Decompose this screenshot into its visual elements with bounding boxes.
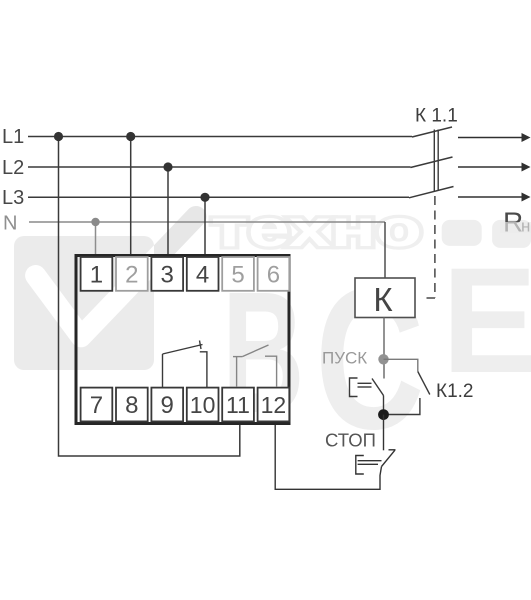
terminal 3 <box>151 257 183 291</box>
svg-text:6: 6 <box>267 261 280 288</box>
node PUSK <box>378 354 388 364</box>
push button PUSK <box>350 378 384 415</box>
svg-text:СТОП: СТОП <box>325 430 376 451</box>
contact K1.1 blade phase 3 <box>409 187 454 198</box>
svg-text:К 1.1: К 1.1 <box>415 106 458 127</box>
dashed link from K1.1 to coil <box>434 196 436 298</box>
svg-text:Е: Е <box>442 238 531 405</box>
svg-text:N: N <box>3 213 17 235</box>
coil K box <box>355 278 415 318</box>
terminal 9 <box>151 388 183 422</box>
terminal 11 <box>222 388 254 422</box>
wire L3 to terminal 4 <box>204 197 206 255</box>
device outer box <box>76 256 289 424</box>
wire L3 <box>28 196 409 198</box>
terminal 8 <box>116 388 148 422</box>
svg-text:7: 7 <box>90 392 103 419</box>
wire L2 to terminal 3 <box>167 167 169 255</box>
watermark logo square with checkmark <box>14 217 196 371</box>
node L1 tap 1 <box>54 132 63 141</box>
contact K1.1 blade phase 2 <box>411 157 453 168</box>
wire coil to PUSK node <box>383 318 385 379</box>
push button STOP <box>275 415 395 490</box>
svg-text:2: 2 <box>125 261 138 288</box>
wire L1 to terminal 2 <box>130 137 132 256</box>
svg-text:L1: L1 <box>2 126 24 148</box>
watermark big VSE letters <box>222 238 531 471</box>
terminal 5 <box>222 257 254 291</box>
svg-text:1: 1 <box>90 261 103 288</box>
contact K1.2 branch <box>384 359 418 371</box>
svg-text:8: 8 <box>125 392 138 419</box>
contact K1.1 blade phase 1 <box>412 127 452 137</box>
internal relay contact 11-12 <box>233 345 277 387</box>
terminal 12 <box>258 388 290 422</box>
internal relay contact 9-10 <box>163 341 207 388</box>
terminal 4 <box>187 257 219 291</box>
terminal 2 <box>116 257 148 291</box>
svg-text:L2: L2 <box>2 157 24 179</box>
arrow out phase 3 <box>458 196 522 198</box>
terminal 1 <box>81 257 113 291</box>
svg-text:12: 12 <box>261 392 287 418</box>
svg-text:ПУСК: ПУСК <box>322 349 367 368</box>
wire N to terminal 1 <box>95 222 97 255</box>
wire from L1 down left side to terminal 11 <box>59 137 240 457</box>
node N tap <box>91 218 99 226</box>
wire L1 <box>28 136 412 138</box>
contact K1.1 linkage bars <box>433 130 435 192</box>
svg-text:К: К <box>373 281 393 318</box>
svg-text:4: 4 <box>196 261 209 288</box>
arrow out phase 2 <box>458 166 522 168</box>
wire L2 <box>28 166 411 168</box>
terminal 10 <box>187 388 219 422</box>
svg-text:К1.2: К1.2 <box>436 381 473 402</box>
terminal 7 <box>81 388 113 422</box>
node L2 tap <box>163 162 172 171</box>
svg-text:3: 3 <box>161 261 174 288</box>
wire N <box>29 221 385 223</box>
svg-text:9: 9 <box>161 392 174 419</box>
arrow out phase 1 <box>458 137 522 139</box>
svg-text:10: 10 <box>190 392 216 418</box>
terminal 6 <box>258 257 290 291</box>
node stop junction <box>378 409 389 420</box>
node L1 tap 2 <box>126 132 135 141</box>
svg-text:5: 5 <box>231 261 244 288</box>
svg-text:11: 11 <box>226 392 250 418</box>
node L3 tap <box>200 193 209 202</box>
svg-text:L3: L3 <box>2 187 24 209</box>
